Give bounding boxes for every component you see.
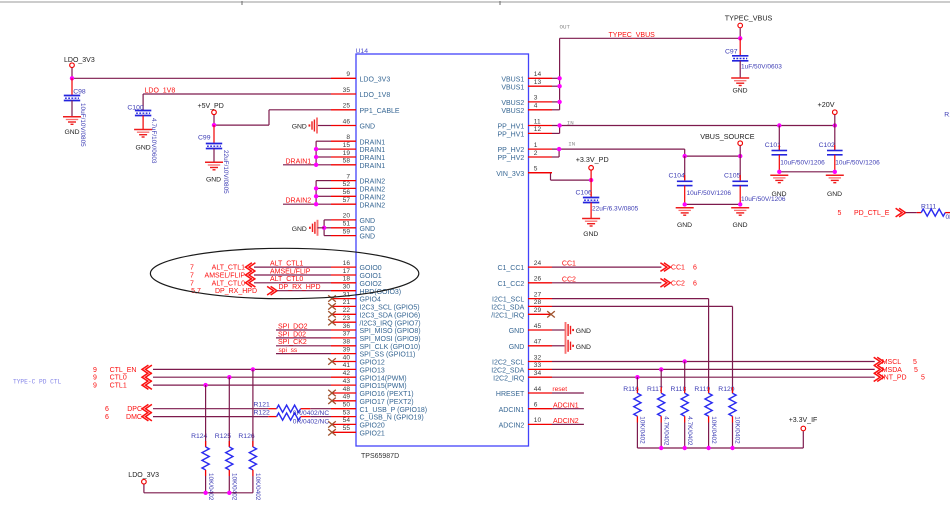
wire CTL1 to pin (153, 384, 331, 386)
ground at pin 47 (552, 338, 591, 354)
ground at pin 45 (552, 322, 591, 338)
svg-text:TYPEC_VBUS: TYPEC_VBUS (609, 32, 656, 39)
pin 14 VBUS1 (501, 71, 552, 83)
svg-text:LDO_3V3: LDO_3V3 (360, 76, 391, 83)
svg-text:C97: C97 (725, 48, 738, 55)
pin 12 PP_HV1 (497, 126, 552, 138)
wire SPI_DO2 to pin (276, 329, 331, 331)
capacitor C106 (576, 190, 639, 219)
svg-text:MSDA: MSDA (882, 367, 903, 374)
wire VIN_3V3 to +3.3V_PD (528, 173, 591, 180)
svg-text:GND: GND (576, 344, 591, 351)
svg-text:VBUS1: VBUS1 (501, 84, 524, 91)
svg-text:DRAIN2: DRAIN2 (286, 198, 312, 205)
svg-text:CC2: CC2 (671, 280, 685, 287)
svg-text:35: 35 (343, 87, 351, 94)
pin 3 VBUS2 (501, 95, 552, 107)
svg-text:51: 51 (343, 221, 351, 228)
svg-text:10K/0402: 10K/0402 (231, 473, 238, 501)
node GND bus junction (322, 226, 326, 230)
svg-text:6: 6 (105, 406, 109, 413)
svg-text:17: 17 (343, 268, 351, 275)
port +3.3V_IF (789, 417, 818, 431)
off-page connector CTL1 (93, 381, 152, 390)
ground below C100 (134, 130, 152, 152)
svg-text:12: 12 (534, 126, 542, 133)
svg-text:53: 53 (343, 409, 351, 416)
svg-text:18: 18 (343, 276, 351, 283)
wire I2C1_SCL to R119 (552, 299, 709, 394)
pin 10 ADCIN2 (499, 417, 552, 429)
pin 49 GPIO17 (PEXT2) (328, 394, 413, 406)
pin 24 C1_CC1 (497, 260, 552, 272)
svg-text:5: 5 (838, 210, 842, 217)
svg-text:I2C1_SDA: I2C1_SDA (491, 305, 524, 312)
pin 19 DRAIN1 (331, 150, 385, 162)
svg-text:I2C2_SCL: I2C2_SCL (492, 360, 524, 367)
capacitor C102 (819, 126, 881, 172)
svg-text:PP1_CABLE: PP1_CABLE (360, 108, 400, 115)
svg-text:R121: R121 (254, 402, 270, 409)
off-page connector DMC (105, 412, 152, 421)
net DRAIN1 bus (283, 141, 331, 165)
svg-text:10K/0402: 10K/0402 (639, 416, 646, 444)
pin 27 I2C1_SCL (492, 291, 552, 303)
svg-text:ALT_CTL0: ALT_CTL0 (212, 280, 245, 287)
svg-text:ALT_CTL1: ALT_CTL1 (270, 261, 303, 268)
svg-text:MSCL: MSCL (882, 359, 902, 366)
pin 43 GPIO15(PWM) (331, 378, 407, 390)
pin 23 /I2C3_IRQ (GPIO7) (328, 315, 420, 327)
svg-text:4.7K/0402: 4.7K/0402 (686, 416, 693, 446)
svg-text:CC2: CC2 (562, 276, 576, 283)
wire C104/C105 ground tie (685, 203, 741, 205)
svg-text:PP_HV1: PP_HV1 (497, 124, 524, 131)
svg-text:I2C2_SDA: I2C2_SDA (491, 368, 524, 375)
resistor R126 10K/0402 (238, 369, 261, 500)
svg-text:VBUS1: VBUS1 (501, 76, 524, 83)
svg-text:DMC: DMC (126, 414, 142, 421)
page border top (0, 1, 950, 3)
svg-text:GOIO1: GOIO1 (360, 273, 382, 280)
svg-text:38: 38 (343, 339, 351, 346)
svg-text:GPIO21: GPIO21 (360, 430, 385, 437)
svg-text:10: 10 (534, 417, 542, 424)
svg-text:LDO_3V3: LDO_3V3 (64, 57, 95, 64)
node DRAIN2 junctions (314, 186, 318, 190)
svg-text:DP_RX_HPD: DP_RX_HPD (279, 284, 321, 291)
svg-text:ADCIN2: ADCIN2 (553, 418, 579, 425)
wire I2C1_SDA to R120 (552, 306, 733, 393)
svg-text:54: 54 (343, 417, 351, 424)
svg-text:IN: IN (567, 119, 574, 126)
svg-text:33: 33 (534, 362, 542, 369)
svg-text:13: 13 (534, 79, 542, 86)
pin 11 PP_HV1 (497, 118, 552, 130)
svg-text:I2C1_SCL: I2C1_SCL (492, 297, 524, 304)
svg-text:4.7K/0402: 4.7K/0402 (662, 416, 669, 446)
svg-text:4.7uF/10V/0603: 4.7uF/10V/0603 (150, 118, 157, 164)
pin 5 VIN_3V3 (496, 166, 552, 178)
svg-text:GND: GND (206, 176, 221, 183)
wire PP_HV2 net (552, 149, 740, 157)
pin 18 GOIO2 (331, 276, 382, 288)
wire SPI_CK2 to pin (276, 345, 331, 347)
svg-text:R1: R1 (944, 112, 950, 119)
svg-text:5: 5 (914, 367, 918, 374)
svg-text:DRAIN1: DRAIN1 (286, 158, 312, 165)
svg-text:GND: GND (64, 129, 79, 136)
node C97 junction (738, 36, 742, 40)
svg-text:C98: C98 (73, 88, 86, 95)
svg-text:6: 6 (693, 280, 697, 287)
node rail junctions (659, 446, 663, 450)
off-page connector ALT_CTL0 (190, 279, 255, 288)
svg-text:GPIO12: GPIO12 (360, 360, 385, 367)
svg-text:49: 49 (343, 394, 351, 401)
pin 2 PP_HV2 (497, 150, 552, 162)
ground at pin 46 (292, 118, 331, 134)
svg-text:46: 46 (343, 118, 351, 125)
wire +3.3V_IF to rail (802, 431, 804, 448)
svg-text:10uF/10V/0805: 10uF/10V/0805 (79, 103, 86, 147)
pin 4 VBUS2 (501, 103, 552, 115)
wire +5V_PD to pin 25 (213, 115, 215, 125)
svg-text:0R/0402/NC: 0R/0402/NC (293, 418, 330, 425)
wire AMSEL/FLIP to pin (254, 274, 331, 276)
pin 28 I2C1_SDA (491, 299, 552, 311)
pin 26 C1_CC2 (497, 276, 552, 288)
ground below C97 (731, 78, 749, 94)
svg-text:CTL0: CTL0 (110, 375, 127, 382)
wire DPC to R121 (153, 408, 268, 410)
svg-text:DRAIN1: DRAIN1 (360, 147, 386, 154)
pin 41 GPIO13 (331, 362, 385, 374)
wire DP_RX_HPD to pin 30 (277, 290, 331, 292)
svg-text:41: 41 (343, 362, 351, 369)
ground below C104 (676, 208, 694, 229)
svg-text:29: 29 (534, 307, 542, 314)
svg-text:0R/0402/NC: 0R/0402/NC (293, 410, 330, 417)
off-page connector CC1 (660, 263, 697, 272)
svg-text:DRAIN1: DRAIN1 (360, 163, 386, 170)
pin 35 LDO_1V8 (331, 87, 390, 99)
svg-text:3: 3 (534, 95, 538, 102)
svg-text:TPS65987D: TPS65987D (361, 453, 399, 460)
pin 1 PP_HV2 (497, 142, 552, 154)
svg-text:5: 5 (913, 359, 917, 366)
svg-text:HPD(GOIO3): HPD(GOIO3) (360, 289, 402, 296)
pin 58 DRAIN1 (331, 158, 385, 170)
svg-text:55: 55 (343, 425, 351, 432)
svg-text:1uF/50V/0603: 1uF/50V/0603 (741, 63, 782, 70)
node I2C2 pull-up junctions (683, 359, 687, 363)
svg-text:4: 4 (534, 103, 538, 110)
wire DMC to R122 (153, 416, 268, 418)
svg-text:U14: U14 (356, 48, 369, 55)
svg-text:TYPEC_VBUS: TYPEC_VBUS (725, 14, 773, 23)
svg-text:DRAIN2: DRAIN2 (360, 194, 386, 201)
ground below C106 (582, 219, 600, 238)
pin 25 PP1_CABLE (331, 103, 400, 115)
wire SPI_D02 to pin (276, 337, 331, 339)
svg-text:10K/0402: 10K/0402 (710, 416, 717, 444)
svg-text:GOIO2: GOIO2 (360, 281, 382, 288)
svg-text:/I2C3_IRQ (GPIO7): /I2C3_IRQ (GPIO7) (360, 320, 421, 327)
svg-text:10uF/50V/1206: 10uF/50V/1206 (780, 159, 825, 166)
svg-text:LDO_1V8: LDO_1V8 (360, 92, 391, 99)
ground below C101 (770, 175, 788, 198)
svg-text:6: 6 (693, 265, 697, 272)
svg-text:AMSEL/FLIP: AMSEL/FLIP (270, 268, 311, 275)
off-page connector INT_PD (874, 373, 925, 382)
svg-text:30: 30 (343, 284, 351, 291)
pin 39 SPI_SS (GPIO11) (331, 346, 415, 358)
pin 6 ADCIN1 (499, 402, 552, 414)
svg-text:/I2C1_IRQ: /I2C1_IRQ (491, 312, 525, 319)
svg-text:10uF/50V/1206: 10uF/50V/1206 (741, 196, 786, 203)
off-page connector AMSEL/FLIP (190, 271, 255, 280)
off-page connector DP_RX_HPD (191, 286, 277, 295)
svg-text:27: 27 (534, 291, 542, 298)
svg-text:CC1: CC1 (671, 265, 685, 272)
pin 36 SPI_MISO (GPIO8) (331, 323, 421, 335)
node PP_HV1 junctions (557, 123, 561, 127)
pin 7 DRAIN2 (331, 173, 385, 185)
svg-text:7: 7 (346, 173, 350, 180)
off-page connector MSCL (874, 357, 917, 366)
wire PD_CTL_E to R111 (906, 212, 917, 214)
pin 32 I2C2_SCL (492, 354, 552, 366)
svg-text:47: 47 (534, 339, 542, 346)
off-page connector CTL0 (93, 373, 152, 382)
ground below C102 (826, 175, 844, 198)
pin 52 DRAIN2 (331, 181, 385, 193)
svg-text:6: 6 (534, 402, 538, 409)
wire ALT_CTL1 to pin (254, 266, 331, 268)
svg-text:+20V: +20V (818, 100, 835, 109)
pin 20 GND (331, 213, 375, 225)
resistor R119 10K/0402 (694, 386, 716, 448)
pin 13 VBUS1 (501, 79, 552, 91)
port LDO_3V3 (64, 57, 95, 68)
capacitor C100 (127, 104, 157, 164)
svg-text:C105: C105 (724, 172, 740, 179)
svg-text:10K/0402: 10K/0402 (254, 473, 261, 501)
wire VBUS bus (552, 38, 740, 110)
pin 57 DRAIN2 (331, 197, 385, 209)
svg-text:48: 48 (343, 386, 351, 393)
svg-text:ADCIN1: ADCIN1 (499, 407, 525, 414)
svg-text:GPIO14(PWM): GPIO14(PWM) (360, 375, 407, 382)
svg-text:10uF/50V/1206: 10uF/50V/1206 (687, 190, 732, 197)
svg-text:42: 42 (343, 370, 351, 377)
svg-text:PP_HV2: PP_HV2 (497, 147, 524, 154)
svg-text:28: 28 (534, 299, 542, 306)
resistor R124 10K/0402 (191, 385, 214, 501)
port +5V_PD (198, 103, 224, 115)
pin 33 I2C2_SDA (491, 362, 552, 374)
ground below C99 (205, 162, 223, 183)
svg-text:VBUS2: VBUS2 (501, 108, 524, 115)
wire MSCL (552, 361, 875, 363)
svg-text:15: 15 (343, 142, 351, 149)
node LDO_3V3/C98 junction (70, 76, 74, 80)
svg-text:I2C3_SDA (GPIO6): I2C3_SDA (GPIO6) (360, 312, 421, 319)
svg-text:50: 50 (343, 402, 351, 409)
svg-text:GPIO4: GPIO4 (360, 297, 382, 304)
pin 8 DRAIN1 (331, 134, 385, 146)
pin 29 /I2C1_IRQ (491, 307, 555, 319)
pin 30 HPD(GOIO3) (331, 284, 401, 296)
svg-text:24: 24 (534, 260, 542, 267)
wire LDO_3V3 pulldown rail (144, 492, 253, 494)
off-page connector CC2 (660, 279, 697, 288)
wire ALT_CTL0 to pin (254, 282, 331, 284)
node tie junctions (777, 170, 781, 174)
highlight ellipse (150, 248, 418, 298)
resistor R121 0R/0402/NC (254, 402, 330, 417)
svg-text:22uF/6.3V/0805: 22uF/6.3V/0805 (592, 205, 639, 212)
svg-text:GND: GND (509, 344, 525, 351)
svg-text:20: 20 (343, 213, 351, 220)
wire R122 to pin 53 (310, 416, 331, 418)
svg-text:9: 9 (93, 383, 97, 390)
svg-text:32: 32 (534, 354, 542, 361)
svg-text:37: 37 (343, 331, 351, 338)
resistor R111 (917, 204, 950, 221)
svg-text:GND: GND (136, 145, 151, 152)
svg-text:C1_USB_P (GPIO18): C1_USB_P (GPIO18) (360, 407, 428, 414)
wire PP_HV1 net (552, 126, 835, 134)
svg-text:DRAIN2: DRAIN2 (360, 202, 386, 209)
off-page connector MSDA (874, 365, 918, 374)
svg-text:34: 34 (534, 370, 542, 377)
svg-text:CTL_EN: CTL_EN (110, 367, 137, 374)
svg-text:0R: 0R (946, 214, 950, 221)
svg-text:19: 19 (343, 150, 351, 157)
svg-text:C1_CC1: C1_CC1 (497, 265, 524, 272)
off-page connector PD_CTL_E (838, 208, 906, 217)
svg-text:CTL1: CTL1 (110, 383, 127, 390)
wire +3.3V_IF rail (637, 447, 803, 449)
pin 21 I2C3_SCL (GPIO5) (328, 299, 419, 311)
svg-text:59: 59 (343, 228, 351, 235)
svg-text:6: 6 (105, 414, 109, 421)
svg-text:GND: GND (360, 124, 376, 131)
svg-text:GND: GND (292, 124, 307, 131)
node DRAIN1 junctions (314, 147, 318, 151)
svg-text:43: 43 (343, 378, 351, 385)
svg-text:GND: GND (583, 231, 598, 238)
svg-text:39: 39 (343, 346, 351, 353)
svg-text:GPIO16 (PEXT1): GPIO16 (PEXT1) (360, 391, 414, 398)
svg-text:7: 7 (190, 273, 194, 280)
svg-text:VBUS_SOURCE: VBUS_SOURCE (700, 132, 755, 141)
pin 54 GPIO20 (328, 417, 385, 429)
svg-text:7: 7 (190, 280, 194, 287)
resistor R120 10K/0402 (718, 386, 740, 448)
wire reset (552, 392, 584, 394)
svg-text:SPI_DO2: SPI_DO2 (278, 323, 308, 330)
svg-text:31: 31 (343, 291, 351, 298)
net DRAIN2 bus (283, 181, 331, 205)
svg-text:SPI_MISO (GPIO8): SPI_MISO (GPIO8) (360, 328, 421, 335)
svg-text:IN: IN (568, 141, 575, 148)
pin 37 SPI_MOSI (GPIO9) (331, 331, 421, 343)
wire CC1 (552, 266, 661, 268)
svg-text:44: 44 (534, 386, 542, 393)
pin 48 GPIO16 (PEXT1) (328, 386, 413, 398)
node PP_HV2 junctions (557, 147, 561, 151)
svg-text:GND: GND (732, 87, 747, 94)
wire +3.3V_PD to C106 (590, 171, 592, 198)
pin 31 GPIO4 (328, 291, 381, 303)
ground at pin 51 (292, 220, 324, 236)
svg-text:GND: GND (732, 222, 747, 229)
svg-text:GND: GND (360, 234, 376, 241)
resistor R117 4.7K/0402 (647, 369, 669, 448)
svg-text:10K/0402: 10K/0402 (207, 473, 214, 501)
capacitor C97 (725, 38, 782, 78)
svg-text:ADCIN2: ADCIN2 (499, 423, 525, 430)
svg-text:16: 16 (343, 260, 351, 267)
pin 56 DRAIN2 (331, 189, 385, 201)
svg-text:C104: C104 (669, 172, 685, 179)
pin 46 GND (331, 118, 375, 130)
svg-text:56: 56 (343, 189, 351, 196)
svg-text:9: 9 (346, 71, 350, 78)
svg-text:10uF/50V/1206: 10uF/50V/1206 (835, 159, 880, 166)
svg-text:reset: reset (552, 386, 567, 393)
node rail junctions (203, 491, 207, 495)
off-page connector DPC (105, 404, 152, 413)
svg-text:GND: GND (292, 226, 307, 233)
svg-text:I2C2_IRQ: I2C2_IRQ (493, 375, 525, 382)
wire +20V to PP_HV1 (834, 115, 836, 126)
svg-text:SPI_SS (GPIO11): SPI_SS (GPIO11) (360, 352, 416, 359)
svg-text:PD_CTL_E: PD_CTL_E (854, 210, 890, 217)
pin 17 GOIO1 (331, 268, 382, 280)
svg-text:CC1: CC1 (562, 261, 576, 268)
svg-text:GOIO0: GOIO0 (360, 265, 382, 272)
svg-text:INT_PD: INT_PD (882, 375, 907, 382)
svg-text:GND: GND (509, 328, 525, 335)
wire INT_PD (552, 376, 875, 378)
wire R121 to pin 50 (310, 408, 331, 410)
port +3.3V_PD (576, 155, 609, 170)
svg-text:2: 2 (534, 150, 538, 157)
svg-text:22: 22 (343, 307, 351, 314)
svg-text:I2C3_SCL (GPIO5): I2C3_SCL (GPIO5) (360, 305, 420, 312)
pin 9 LDO_3V3 (331, 71, 390, 83)
wire spi_ss to pin (276, 353, 331, 355)
svg-text:36: 36 (343, 323, 351, 330)
svg-text:ADCIN1: ADCIN1 (553, 402, 579, 409)
svg-text:ALT_CTL1: ALT_CTL1 (212, 265, 245, 272)
node CTL junctions (251, 367, 255, 371)
svg-text:9: 9 (93, 367, 97, 374)
capacitor C105 (724, 156, 786, 204)
wire LDO_3V3 to pin 9 (71, 68, 73, 78)
svg-text:11: 11 (534, 118, 541, 125)
IC U14 TPS65987D body (356, 54, 529, 446)
pin 15 DRAIN1 (331, 142, 385, 154)
svg-text:25: 25 (343, 103, 351, 110)
svg-text:5: 5 (921, 375, 925, 382)
wire CTL0 to pin (153, 376, 331, 378)
pin 47 GND (509, 339, 552, 351)
